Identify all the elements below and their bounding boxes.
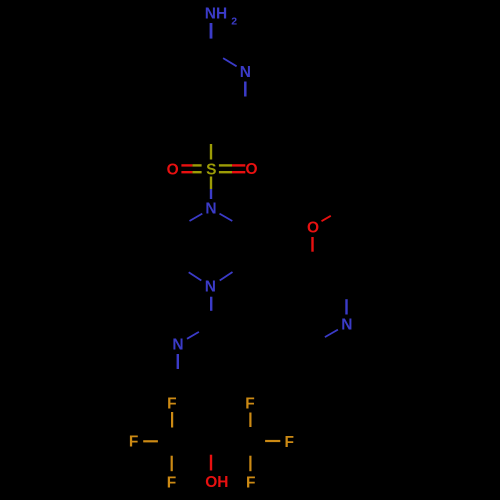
wire: N8-C9 half-bond (177, 354, 179, 369)
wire: N1-C6 piperazine half-bond (190, 214, 203, 221)
wire: F bottom-right bond (249, 456, 251, 472)
wire: C1-N2 half-bond (223, 58, 237, 66)
svg-text:O: O (245, 161, 257, 178)
wire: N2-C3 half-bond (244, 82, 247, 97)
wire: S=O left double bond, S half (192, 164, 201, 166)
svg-text:F: F (129, 434, 138, 451)
wire: C(ring)-N9 half-bond (345, 299, 347, 314)
svg-text:F: F (167, 395, 176, 412)
svg-text:O: O (167, 162, 179, 179)
wire: N(amine)-C1 half-bond (210, 23, 213, 39)
wire: C-OH half-bond (210, 455, 212, 471)
wire: C4-S half-bond (S side) (210, 144, 212, 160)
wire: F top-right bond (249, 413, 251, 428)
wire: F right bond (265, 440, 280, 442)
svg-text:S: S (206, 162, 216, 179)
wire: F top-left bond (171, 412, 173, 428)
wire: N1-C2 piperazine half-bond (220, 214, 233, 221)
svg-text:F: F (167, 474, 176, 491)
wire: S=O right double bond, O half (232, 164, 245, 166)
svg-text:OH: OH (205, 474, 228, 491)
wire: O(methoxy)-CH3 half-bond (322, 216, 331, 221)
wire: S=O left double bond, O half (181, 164, 192, 166)
wire: S-N1 bond S half (210, 177, 212, 190)
wire: S-N1 bond N half (210, 189, 212, 199)
svg-text:F: F (246, 474, 255, 491)
svg-text:N: N (240, 64, 251, 81)
svg-text:F: F (284, 434, 293, 451)
wire: F bottom-left bond (171, 456, 173, 472)
wire: N9-C(ring) half-bond (325, 330, 338, 338)
wire: O(methoxy)-ring half-bond (311, 237, 313, 252)
wire: N4-C7 half-bond (210, 297, 212, 311)
wire: C7-N8 half-bond (187, 332, 199, 339)
wire: N4-C3 piperazine half-bond (220, 272, 233, 281)
svg-text:N: N (205, 200, 216, 217)
wire: N4-C5 piperazine half-bond (189, 272, 202, 280)
svg-text:N: N (205, 279, 216, 296)
wire: F left bond (143, 440, 158, 442)
svg-text:N: N (172, 337, 183, 354)
svg-text:F: F (245, 395, 254, 412)
svg-text:O: O (307, 220, 319, 237)
wire: S=O right double bond, S half (219, 164, 232, 166)
svg-text:N: N (341, 317, 352, 334)
